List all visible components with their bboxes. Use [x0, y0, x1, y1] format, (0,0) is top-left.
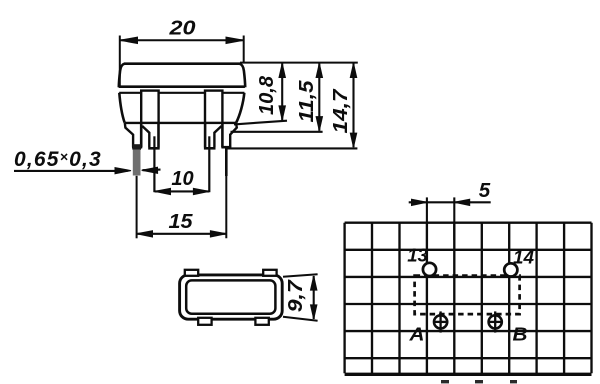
outer blade right [230, 123, 237, 147]
pin hole 14 [504, 263, 517, 276]
seam line 1 (cover bottom) [119, 85, 245, 88]
dim 15 extension left [136, 176, 138, 239]
dim 15 extension right [225, 150, 227, 238]
inner pin right (thin) [208, 136, 210, 192]
bottom view outer outline [180, 275, 283, 319]
ref line 11.5 [231, 131, 323, 133]
svg-text:15: 15 [169, 211, 194, 233]
label 0,65x0,3 leader line [14, 170, 128, 172]
svg-text:11,5: 11,5 [296, 80, 318, 123]
right arrow of 0,65x0,3 [143, 169, 161, 172]
base bottom edge segment left [124, 122, 141, 124]
dim 20 extension line right [243, 36, 245, 64]
dim 5 line [409, 201, 491, 203]
base bottom edge segment right [222, 122, 236, 124]
svg-text:0,65×0,3: 0,65×0,3 [14, 148, 102, 171]
inner blade left [142, 126, 149, 147]
dim 20 extension line left [119, 36, 121, 87]
mounting grid [345, 223, 592, 375]
bottom view bottom tab left [198, 318, 211, 325]
cover left side [119, 64, 125, 88]
dim 9.7 extension bottom [283, 317, 318, 321]
svg-text:10,8: 10,8 [256, 75, 278, 115]
bottom view inner outline [186, 280, 275, 313]
dim 9.7 arrow [313, 276, 315, 319]
svg-text:10: 10 [171, 168, 193, 190]
svg-text:14,7: 14,7 [330, 89, 352, 134]
cut-off text specks below grid [441, 380, 449, 383]
ref line top right [240, 62, 358, 64]
dashed body outline on grid [415, 276, 520, 315]
relay front view: cover top edge [124, 62, 240, 65]
seam line 2 (base top) [119, 92, 244, 94]
pin hole 13 [423, 263, 436, 276]
dim 10.8 arrow [281, 63, 283, 120]
dim 5 extension lines [426, 197, 428, 223]
mounting hole A [439, 311, 441, 332]
base bottom edge segment middle [159, 122, 206, 124]
lead tab left [141, 91, 158, 123]
dim 15 line [137, 233, 227, 235]
svg-text:5: 5 [479, 179, 491, 202]
svg-text:14: 14 [513, 247, 534, 268]
base left side [119, 93, 124, 123]
outer blade left [125, 123, 133, 147]
pin 4 [225, 147, 228, 176]
svg-text:20: 20 [168, 18, 195, 40]
cover right side [240, 64, 246, 88]
bottom view top tab left [185, 270, 198, 276]
bottom view top tab right [263, 270, 276, 276]
bottom view bottom tab right [255, 318, 268, 325]
dim 9.7 extension top [283, 274, 318, 277]
dim 20 line [120, 39, 244, 41]
ref line 10.8 [234, 121, 287, 125]
inner pin left (thin) [153, 136, 155, 192]
dim 20 arrowheads [120, 37, 138, 43]
dim 14.7 arrow [352, 63, 354, 147]
dim 11.5 arrow [318, 63, 320, 130]
dim 10 line [155, 190, 210, 192]
mounting hole B [494, 311, 496, 332]
base right side [236, 93, 244, 123]
svg-text:A: A [408, 324, 424, 345]
svg-text:B: B [513, 324, 528, 345]
inner blade right [214, 126, 221, 147]
ref line 14.7 [227, 147, 358, 149]
pin 1 cross-section (0.65x0.3) grey [132, 144, 141, 150]
lead tab right [205, 91, 222, 123]
svg-text:13: 13 [407, 245, 428, 266]
svg-text:9,7: 9,7 [285, 279, 307, 312]
